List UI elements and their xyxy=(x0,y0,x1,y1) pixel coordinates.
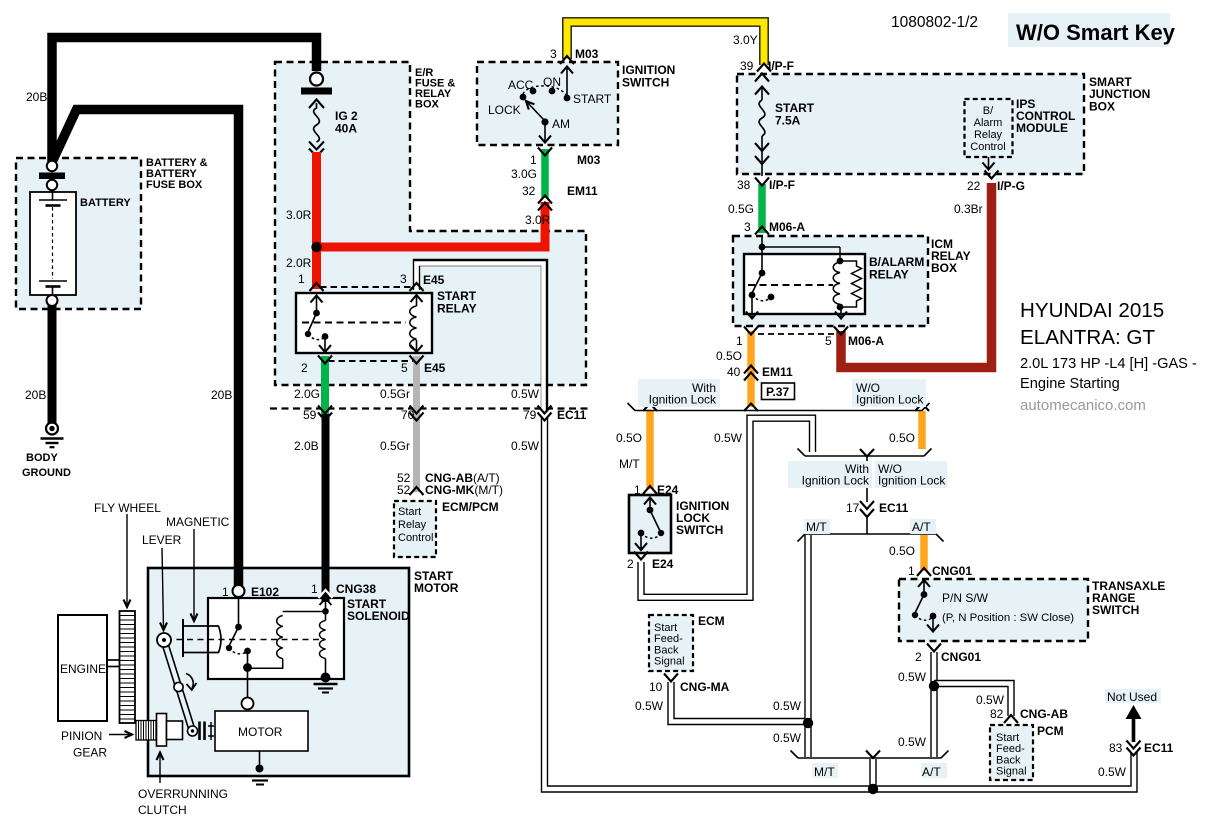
svg-text:20B: 20B xyxy=(25,388,46,402)
wire 2.0G green start relay 2 to EC11 59 xyxy=(321,356,329,414)
wire 0.3Br brown I/P-G 22 to M06-A 5 xyxy=(841,183,992,368)
svg-text:32: 32 xyxy=(522,184,536,198)
wire label 2.0B xyxy=(294,439,319,453)
svg-text:START: START xyxy=(573,92,612,106)
svg-text:3: 3 xyxy=(744,220,751,234)
transaxle range switch label xyxy=(1092,579,1165,617)
pin 1 E24 xyxy=(634,483,679,497)
EC11 79 connector xyxy=(538,406,552,421)
pin 52 CNG-MK xyxy=(397,483,503,497)
pin 79 EC11 xyxy=(523,408,587,422)
b/alarm relay internals xyxy=(746,236,862,319)
svg-text:0.5W: 0.5W xyxy=(635,699,664,713)
wire 0.5Gr gray start relay 5 to CNG 52 xyxy=(413,356,420,492)
lever xyxy=(157,633,198,736)
pin 39 I/P-F xyxy=(740,59,794,73)
svg-text:ON: ON xyxy=(543,75,561,89)
start solenoid body xyxy=(208,598,344,679)
M/T label E24 xyxy=(619,457,640,471)
svg-text:P/N S/W: P/N S/W xyxy=(942,591,989,605)
wire label 0.5W lower xyxy=(511,439,540,453)
M/T label branch3 xyxy=(806,520,827,534)
I/P-F 39 connector xyxy=(757,64,771,72)
wire label 2.0R xyxy=(286,256,312,270)
ignition lock switch internals xyxy=(635,497,664,550)
pin 1 M03 xyxy=(530,153,601,167)
wire label 0.5W bottom right xyxy=(1098,765,1127,779)
start relay internals xyxy=(302,295,423,353)
svg-text:ELANTRA: GT: ELANTRA: GT xyxy=(1020,326,1155,349)
w/o ignition lock label level2 xyxy=(878,462,946,488)
CNG 52 connector xyxy=(410,487,424,495)
svg-text:MOTOR: MOTOR xyxy=(238,725,283,739)
svg-text:CNG-MA: CNG-MA xyxy=(680,680,730,694)
svg-text:3.0R: 3.0R xyxy=(525,213,551,227)
wire 2.0B black EC11 59 to CNG38 xyxy=(322,414,330,602)
wire label 0.5O CNG01 xyxy=(889,544,915,558)
fly wheel label arrow xyxy=(124,514,131,607)
junction node A/T wire xyxy=(929,681,939,691)
wire label 3.0G xyxy=(511,167,537,181)
magnetic label arrow xyxy=(191,529,198,621)
M06-A connector dashed line xyxy=(758,333,834,335)
svg-text:I/P-G: I/P-G xyxy=(997,179,1025,193)
start solenoid internals xyxy=(226,597,332,710)
wire 0.5O orange branch to W/O ignition lock xyxy=(918,411,926,449)
branch line with/without ignition lock xyxy=(628,403,930,411)
pin 70 EC11 xyxy=(401,408,415,422)
E45 connector dashed line bottom xyxy=(328,360,414,362)
E/R fuse relay box label xyxy=(415,67,455,111)
engine body xyxy=(58,615,107,721)
wire 0.5W white CNG-MA 10 to junction xyxy=(671,682,805,722)
wire label 0.5W junction lower xyxy=(773,731,802,745)
wire label 0.5W CNG-AB xyxy=(976,693,1005,707)
PCM box (start feed-back signal) xyxy=(990,725,1033,780)
svg-text:1: 1 xyxy=(736,334,743,348)
CNG-MA 10 connector xyxy=(664,674,678,682)
pinion gear label arrow xyxy=(109,731,132,738)
IPS module inner label xyxy=(970,105,1005,153)
ignition switch position labels xyxy=(488,75,612,131)
battery body xyxy=(30,192,76,295)
E102 1 connector xyxy=(233,585,245,597)
start relay pin chevrons E45 1,3,2,5 xyxy=(310,283,424,364)
wire label 0.5W E24 branch xyxy=(714,431,743,445)
svg-text:I/P-F: I/P-F xyxy=(768,59,794,73)
not used label xyxy=(1107,690,1157,704)
wire label 3.0Y xyxy=(733,33,758,47)
PCM start feedback label xyxy=(996,732,1027,778)
svg-text:CNG-AB: CNG-AB xyxy=(1020,707,1068,721)
solenoid dashed axis xyxy=(166,639,322,641)
svg-text:ENGINE: ENGINE xyxy=(60,662,106,676)
svg-text:82: 82 xyxy=(990,707,1004,721)
svg-text:20B: 20B xyxy=(26,90,47,104)
svg-text:1: 1 xyxy=(530,153,537,167)
svg-text:M/T: M/T xyxy=(806,520,827,534)
M/T label branch4 xyxy=(814,765,835,779)
svg-text:1: 1 xyxy=(298,272,305,286)
pin 59 EC11 xyxy=(303,408,317,422)
svg-text:59: 59 xyxy=(303,408,317,422)
M06-A 3 connector xyxy=(755,227,769,235)
fuse IG 2 40A xyxy=(309,100,324,157)
EC11 70 connector xyxy=(410,406,424,421)
branch line 2 (to EC11 17) xyxy=(798,449,932,503)
svg-text:A/T: A/T xyxy=(912,520,931,534)
svg-text:2: 2 xyxy=(627,557,634,571)
start relay body xyxy=(296,293,432,353)
svg-text:1: 1 xyxy=(634,483,641,497)
b/alarm relay label xyxy=(869,255,924,282)
svg-text:3.0R: 3.0R xyxy=(286,208,312,222)
wire label 0.5Gr xyxy=(380,387,410,401)
svg-text:2: 2 xyxy=(301,361,308,375)
pin 5 M06-A xyxy=(825,334,884,348)
junction node bottom wire xyxy=(868,784,878,794)
M03 3 connector xyxy=(560,56,574,64)
magnetic label xyxy=(166,515,230,529)
svg-text:0.5O: 0.5O xyxy=(889,431,915,445)
pin 1 E45 xyxy=(298,272,305,286)
svg-text:CNG01: CNG01 xyxy=(941,650,981,664)
start motor label xyxy=(414,569,459,595)
svg-text:0.5W: 0.5W xyxy=(511,387,540,401)
svg-text:1080802-1/2: 1080802-1/2 xyxy=(891,14,978,31)
svg-text:0.5W: 0.5W xyxy=(1098,765,1127,779)
wire 0.5O orange A/T branch to CNG01 1 xyxy=(920,535,928,571)
ECM box (start feed-back signal) xyxy=(649,615,693,671)
E/R fuse & relay box xyxy=(275,62,586,385)
wire label 3.0R mid xyxy=(525,213,551,227)
with ignition lock label level2 xyxy=(802,462,870,488)
EC11 17 connector xyxy=(860,501,874,534)
IPS control module box xyxy=(965,99,1013,157)
I/P-G 22 connector xyxy=(985,171,999,179)
EM11 40 connector xyxy=(744,366,758,381)
M06-A 1 connector xyxy=(744,327,758,335)
wire label 0.5W CNG01 xyxy=(898,670,927,684)
smart junction box label xyxy=(1089,75,1150,113)
svg-text:2.0B: 2.0B xyxy=(294,439,319,453)
not used arrow xyxy=(1126,705,1142,742)
wire label 0.3Br xyxy=(954,202,983,216)
w/o smart key title xyxy=(1016,20,1176,45)
CNG38 1 connector xyxy=(319,590,333,598)
pin 2 CNG01 xyxy=(915,650,981,664)
svg-text:M03: M03 xyxy=(575,47,599,61)
transaxle range switch box xyxy=(899,579,1088,641)
branch line 3 (M/T - A/T) xyxy=(798,534,944,542)
svg-text:EM11: EM11 xyxy=(762,365,793,379)
fuse START 7.5A xyxy=(755,74,769,177)
svg-text:ECM: ECM xyxy=(698,614,725,628)
ECM start feedback label xyxy=(654,622,685,668)
pin 17 EC11 xyxy=(846,501,909,515)
pin 82 CNG-AB xyxy=(990,707,1068,721)
P N position label xyxy=(942,612,1074,624)
overrunning clutch label xyxy=(138,787,228,817)
PCM label xyxy=(1037,724,1064,738)
svg-text:E24: E24 xyxy=(657,483,679,497)
svg-text:automecanico.com: automecanico.com xyxy=(1020,397,1146,414)
pin 2 E45 xyxy=(301,361,308,375)
svg-text:E24: E24 xyxy=(652,557,674,571)
ignition switch label xyxy=(622,63,675,90)
wire 0.5W white E24 2 to with-ignition-lock branch xyxy=(641,418,813,597)
svg-text:PCM: PCM xyxy=(1037,724,1064,738)
pin 5 E45 xyxy=(401,361,446,375)
EC11 connector dashed line xyxy=(270,407,588,409)
svg-text:70: 70 xyxy=(401,408,415,422)
M03 1 connector xyxy=(538,148,552,156)
svg-text:(P, N Position : SW Close): (P, N Position : SW Close) xyxy=(942,612,1074,624)
ICM relay box xyxy=(733,236,928,326)
svg-text:FLY WHEEL: FLY WHEEL xyxy=(94,501,161,515)
svg-text:M/T: M/T xyxy=(814,765,835,779)
node label 20B ground xyxy=(25,388,46,402)
svg-text:3: 3 xyxy=(550,47,557,61)
svg-text:IG 240A: IG 240A xyxy=(335,109,358,136)
svg-text:3.0G: 3.0G xyxy=(511,167,537,181)
svg-text:0.5O: 0.5O xyxy=(616,431,642,445)
wire label 0.5W junction upper xyxy=(773,699,802,713)
svg-text:0.5W: 0.5W xyxy=(898,670,927,684)
pin 40 EM11 xyxy=(727,365,793,379)
svg-text:0.5Gr: 0.5Gr xyxy=(380,387,410,401)
svg-text:1: 1 xyxy=(908,564,915,578)
E45 connector dashed line top xyxy=(320,286,414,288)
svg-text:0.5G: 0.5G xyxy=(728,202,754,216)
svg-text:AM: AM xyxy=(552,117,570,131)
engine to flywheel shaft xyxy=(107,660,119,667)
wire 0.5O orange branch to E24 1 xyxy=(646,411,654,489)
svg-text:IGNITIONSWITCH: IGNITIONSWITCH xyxy=(622,63,675,90)
EM11 32 connector xyxy=(538,196,552,211)
pin 83 EC11 xyxy=(1109,741,1174,755)
wire label 0.5G xyxy=(728,202,754,216)
wire label 0.5O b-alarm xyxy=(716,349,742,363)
svg-text:MAGNETIC: MAGNETIC xyxy=(166,515,230,529)
wire 0.5W white relay 3 to EC11 79 xyxy=(417,263,545,412)
svg-text:0.5W: 0.5W xyxy=(773,699,802,713)
ignition switch box xyxy=(477,62,618,145)
wire 3.0G green M03 to EM11 xyxy=(541,149,549,198)
I/P-F 38 connector xyxy=(755,178,769,186)
svg-text:M/T: M/T xyxy=(619,457,640,471)
pin 32 EM11 xyxy=(522,184,598,198)
svg-text:M03: M03 xyxy=(577,153,601,167)
pin 3 M03 top xyxy=(550,47,599,61)
w/o ignition lock label right xyxy=(856,381,924,407)
wire label 2.0G xyxy=(294,387,320,401)
svg-text:ECM/PCM: ECM/PCM xyxy=(442,500,499,514)
E24 2 connector xyxy=(634,552,648,560)
svg-text:0.5Gr: 0.5Gr xyxy=(380,439,410,453)
svg-text:0.5W: 0.5W xyxy=(511,439,540,453)
pin 2 E24 xyxy=(627,557,674,571)
vehicle title xyxy=(1020,299,1197,414)
svg-text:E45: E45 xyxy=(424,361,446,375)
EC11 59 connector xyxy=(318,406,332,421)
svg-text:I/P-F: I/P-F xyxy=(769,178,795,192)
svg-text:CNG01: CNG01 xyxy=(932,564,972,578)
overrunning clutch xyxy=(157,714,215,747)
magnetic plunger xyxy=(183,619,221,657)
wire 0.5O orange B/alarm 1 to EM11 40 xyxy=(747,331,755,407)
wire 0.5W white CNG01 2 to A/T branch xyxy=(930,652,937,757)
wire 0.5W white branch4 to bottom wire xyxy=(869,759,876,786)
ECM/PCM start relay control box xyxy=(394,501,436,557)
svg-text:2: 2 xyxy=(915,650,922,664)
start solenoid label xyxy=(347,597,410,623)
pin 1 E102 xyxy=(222,585,279,599)
A/T label branch3 xyxy=(912,520,931,534)
svg-text:ACC: ACC xyxy=(508,78,534,92)
svg-text:3.0Y: 3.0Y xyxy=(733,33,758,47)
svg-text:M06-A: M06-A xyxy=(848,334,884,348)
wire label 0.5W A/T lower xyxy=(898,735,927,749)
svg-text:20B: 20B xyxy=(211,388,232,402)
fuse IG2 label xyxy=(335,109,358,136)
svg-text:E45: E45 xyxy=(423,273,445,287)
pin 22 I/P-G xyxy=(967,179,1025,193)
svg-text:52: 52 xyxy=(397,483,411,497)
CNG-AB 82 connector xyxy=(1004,715,1018,723)
svg-text:5: 5 xyxy=(825,334,832,348)
svg-text:Not Used: Not Used xyxy=(1107,690,1157,704)
svg-text:EC11: EC11 xyxy=(879,501,909,515)
pinion gear xyxy=(136,721,156,741)
wire label 0.5O right branch xyxy=(889,431,915,445)
motor body xyxy=(215,711,308,751)
svg-text:HYUNDAI 2015: HYUNDAI 2015 xyxy=(1020,299,1164,322)
wire 20B battery to body ground xyxy=(48,303,57,423)
svg-text:CNG38: CNG38 xyxy=(336,582,376,596)
svg-text:LEVER: LEVER xyxy=(142,533,182,547)
wire 0.5W white EC11 79 to EC11 83 (long bottom run) xyxy=(545,416,1135,789)
ECM label xyxy=(698,614,725,628)
wire 0.5W white junction to CNG-AB 82 xyxy=(934,684,1011,717)
IPS control module label xyxy=(1016,97,1075,135)
pin 38 I/P-F xyxy=(737,178,795,192)
svg-text:0.5W: 0.5W xyxy=(976,693,1005,707)
ignition switch internals xyxy=(520,66,573,143)
svg-text:5: 5 xyxy=(401,361,408,375)
ignition lock switch box xyxy=(629,495,671,553)
wire label 0.5Gr lower xyxy=(380,439,410,453)
lever label arrow xyxy=(160,548,167,630)
svg-text:10: 10 xyxy=(649,680,663,694)
svg-text:0.5O: 0.5O xyxy=(889,544,915,558)
svg-text:38: 38 xyxy=(737,178,751,192)
svg-text:A/T: A/T xyxy=(922,765,941,779)
solenoid ground xyxy=(314,673,338,693)
body ground xyxy=(41,423,64,448)
svg-text:83: 83 xyxy=(1109,741,1123,755)
fly wheel xyxy=(120,611,136,723)
svg-text:EC11: EC11 xyxy=(557,408,587,422)
wire 3.0R/2.0R red IG2 to start relay xyxy=(312,152,321,289)
lever rotation arrow xyxy=(186,674,197,691)
svg-text:M06-A: M06-A xyxy=(769,220,805,234)
wire 20B battery to E102 xyxy=(53,110,239,587)
pin 10 CNG-MA xyxy=(649,680,730,694)
pin 52 CNG-AB xyxy=(397,471,500,485)
svg-text:0.5W: 0.5W xyxy=(773,731,802,745)
svg-text:CNG-MK(M/T): CNG-MK(M/T) xyxy=(425,483,503,497)
svg-text:E102: E102 xyxy=(251,585,279,599)
svg-text:79: 79 xyxy=(523,408,537,422)
svg-text:2.0L 173 HP -L4 [H] -GAS -: 2.0L 173 HP -L4 [H] -GAS - xyxy=(1020,356,1197,372)
A/T label branch4 xyxy=(922,765,941,779)
b/alarm relay body xyxy=(744,254,865,314)
start motor box xyxy=(148,568,409,776)
wire label 0.5O left branch xyxy=(616,431,642,445)
fuse START 7.5A label xyxy=(775,101,815,128)
diagram number xyxy=(891,14,978,31)
svg-text:2.0R: 2.0R xyxy=(286,256,312,270)
M06-A 5 connector xyxy=(834,327,848,335)
lever label xyxy=(142,533,182,547)
wire label 0.5W relay xyxy=(511,387,540,401)
svg-text:1: 1 xyxy=(311,582,318,596)
pin 1 CNG38 xyxy=(311,582,376,596)
node label 20B mid xyxy=(211,388,232,402)
motor connection and ground xyxy=(252,751,268,785)
svg-text:P.37: P.37 xyxy=(766,385,789,399)
wire label 0.5W CNG-MA xyxy=(635,699,664,713)
wire 3.0R red branch to EM11 32 xyxy=(317,202,546,247)
battery top terminal xyxy=(39,161,65,190)
start relay control label xyxy=(398,506,433,544)
ECM/PCM label xyxy=(442,500,499,514)
svg-text:39: 39 xyxy=(740,59,754,73)
CNG01 2 connector xyxy=(927,644,941,652)
IG2 fuse terminal xyxy=(301,73,332,95)
svg-text:17: 17 xyxy=(846,501,860,515)
svg-text:EC11: EC11 xyxy=(1144,741,1174,755)
svg-text:1: 1 xyxy=(222,585,229,599)
branch line 4 (M/T - A/T bottom) xyxy=(791,751,949,759)
svg-text:LOCK: LOCK xyxy=(488,103,521,117)
overrunning clutch label arrow xyxy=(157,753,164,784)
motor label xyxy=(238,725,283,739)
svg-text:0.5O: 0.5O xyxy=(716,349,742,363)
svg-text:Engine Starting: Engine Starting xyxy=(1020,376,1120,392)
svg-text:STARTRELAY: STARTRELAY xyxy=(437,289,477,316)
wire 0.5W white M/T branch to bottom junction xyxy=(804,535,811,757)
body ground label xyxy=(22,452,71,479)
start relay label xyxy=(437,289,477,316)
wire 0.5G green I/P-F 38 to M06-A 3 xyxy=(758,184,766,233)
smart junction box xyxy=(737,74,1084,174)
engine label xyxy=(60,662,106,676)
junction node M/T wire xyxy=(803,718,813,728)
IPS control arrow to I/P-G xyxy=(983,157,995,170)
with ignition lock label left xyxy=(649,381,717,407)
fly wheel label xyxy=(94,501,161,515)
pin 3 E45 xyxy=(400,272,445,287)
CNG01 1 connector xyxy=(917,568,931,576)
battery & battery fuse box xyxy=(16,158,141,309)
svg-text:STARTMOTOR: STARTMOTOR xyxy=(414,569,459,595)
junction red node xyxy=(311,242,321,252)
svg-text:40: 40 xyxy=(727,365,741,379)
label background tints xyxy=(638,13,1170,778)
battery cell symbol xyxy=(39,190,67,295)
